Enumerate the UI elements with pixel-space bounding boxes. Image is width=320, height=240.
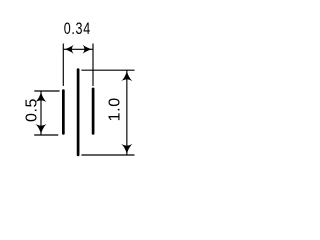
- svg-text:0.5: 0.5: [23, 98, 40, 122]
- svg-text:1.0: 1.0: [106, 97, 123, 121]
- svg-text:0.34: 0.34: [64, 20, 91, 38]
